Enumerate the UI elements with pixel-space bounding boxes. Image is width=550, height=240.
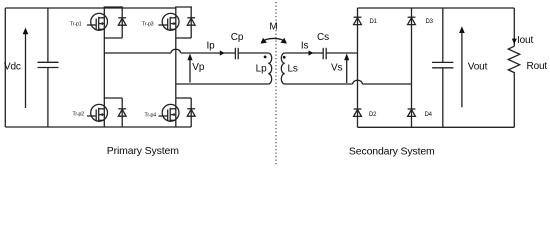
svg-text:Cs: Cs: [317, 32, 329, 43]
wire box2 top: [176, 7, 191, 8]
capacitor Cp: [235, 48, 238, 60]
svg-text:Lp: Lp: [256, 64, 267, 75]
svg-text:Tr-p4: Tr-p4: [145, 113, 157, 119]
diode body D Tr-p3: [187, 7, 195, 38]
diode body D Tr-p1: [118, 7, 126, 38]
svg-text:Tr-p3: Tr-p3: [142, 22, 154, 28]
wire tank bottom primary: [176, 83, 268, 85]
diode body D Tr-p4: [187, 98, 195, 127]
svg-text:Tr-p1: Tr-p1: [70, 22, 82, 28]
diode D4: [408, 109, 416, 116]
node leg C: [357, 8, 359, 127]
transistor Q1 Tr-p1: [87, 13, 108, 31]
capacitor Cs: [323, 48, 326, 60]
svg-text:D1: D1: [370, 19, 378, 25]
wire box3 top: [104, 97, 122, 99]
diode body D Tr-p2: [118, 98, 126, 127]
wire top rail secondary: [358, 7, 515, 9]
wire Cs to leg C: [326, 52, 357, 54]
arrow Vp: [187, 54, 192, 83]
wire Rout to bottom rail: [513, 77, 515, 127]
wire top rail primary: [5, 7, 176, 9]
transistor Q4 Tr-p4: [159, 104, 180, 122]
node dot Lp: [264, 56, 267, 59]
svg-text:D2: D2: [369, 112, 377, 118]
wire box2 bottom: [176, 37, 191, 39]
svg-text:Ip: Ip: [207, 41, 216, 52]
wire to Rout: [513, 8, 515, 46]
wire left rail: [4, 8, 6, 127]
capacitor Cin stubs: [47, 8, 49, 62]
wire crossover bump leg B: [171, 49, 181, 53]
wire bottom rail secondary: [358, 126, 515, 128]
svg-text:M: M: [269, 22, 277, 33]
wire Cin bottom stub: [47, 68, 49, 128]
svg-text:Vp: Vp: [192, 62, 205, 73]
svg-text:D3: D3: [426, 19, 434, 25]
wire tank top primary: [104, 49, 235, 53]
svg-text:Vs: Vs: [331, 63, 343, 74]
arrow Iout: [512, 39, 517, 45]
wire box4 top: [176, 97, 191, 99]
diode D1: [354, 17, 362, 24]
svg-text:Ls: Ls: [288, 64, 298, 75]
resistor Rout: [508, 46, 519, 77]
svg-text:Primary System: Primary System: [107, 145, 179, 157]
wire Cp to Lp: [238, 52, 268, 54]
wire tank bottom secondary: [285, 80, 412, 84]
svg-text:Vout: Vout: [468, 62, 488, 73]
arrow Ip: [220, 50, 225, 55]
capacitor Cin plates: [38, 61, 59, 63]
wire tank top secondary: [285, 52, 324, 54]
diode D2: [354, 109, 362, 116]
inductor Lp: [268, 53, 271, 84]
wire bottom rail primary: [5, 126, 191, 128]
transistor Q3 Tr-p3: [159, 13, 180, 31]
capacitor Cout: [432, 8, 453, 127]
wire crossover bump leg C: [353, 80, 363, 84]
arrow Vdc: [23, 28, 29, 109]
wire box1 top: [104, 7, 122, 8]
wire box1 bottom: [104, 37, 122, 39]
svg-text:Is: Is: [301, 41, 309, 52]
svg-text:Secondary System: Secondary System: [349, 145, 435, 157]
transistor Q2 Tr-p2: [87, 104, 108, 122]
arrow Vs: [344, 54, 349, 84]
svg-text:Tr-p2: Tr-p2: [73, 111, 85, 117]
inductor Ls: [281, 53, 284, 84]
diode D3: [408, 17, 416, 24]
svg-text:Iout: Iout: [517, 35, 533, 46]
node leg D: [411, 8, 413, 127]
svg-text:Rout: Rout: [527, 61, 548, 72]
svg-text:Vdc: Vdc: [4, 62, 21, 73]
arrow Vout: [459, 26, 465, 107]
svg-text:Cp: Cp: [231, 32, 244, 43]
node dot Ls: [283, 56, 286, 59]
arrow Is: [309, 50, 314, 55]
svg-text:D4: D4: [425, 112, 433, 118]
arrow mutual coupling: [261, 38, 287, 44]
node leg B: [175, 7, 177, 127]
boundary dotted line: [275, 2, 277, 166]
node leg A: [103, 7, 105, 127]
